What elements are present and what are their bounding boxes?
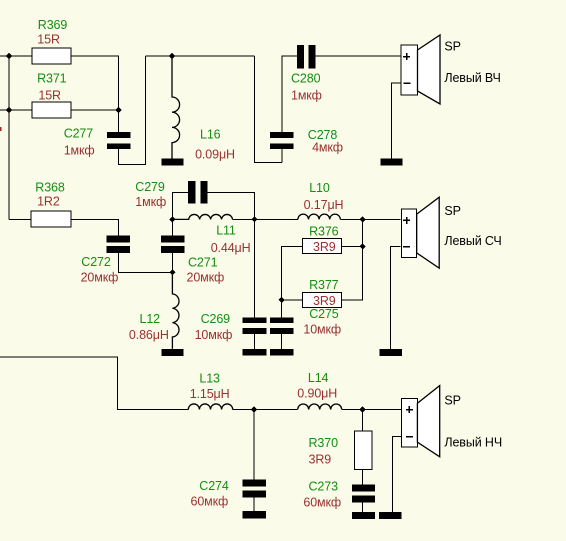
wire R369 right to corner down [71, 56, 119, 110]
wire C278 bottom stub [281, 149, 283, 162]
label C271 [187, 255, 225, 284]
ground speaker NCh [379, 512, 402, 519]
svg-text:3R9: 3R9 [313, 294, 336, 308]
svg-text:60мкф: 60мкф [191, 494, 229, 508]
wire input second y=110 [0, 109, 32, 111]
svg-text:L10: L10 [309, 181, 330, 195]
capacitor C278 [270, 132, 294, 149]
svg-text:C274: C274 [199, 479, 229, 493]
capacitor C272 [106, 235, 130, 253]
ground C269 [243, 349, 267, 356]
svg-text:0.09μH: 0.09μH [195, 147, 235, 161]
ground L12 [162, 349, 184, 356]
wire C278 top to C280 left [282, 56, 297, 132]
svg-text:R368: R368 [35, 181, 65, 195]
wire R368 right to C272 top [71, 219, 119, 235]
label R371 [37, 71, 67, 102]
svg-text:1R2: 1R2 [37, 194, 60, 208]
svg-text:3R9: 3R9 [313, 240, 336, 254]
resistor R371 [32, 102, 71, 118]
label R370 [309, 436, 339, 467]
svg-text:Левый ВЧ: Левый ВЧ [444, 71, 500, 85]
svg-text:3R9: 3R9 [309, 453, 332, 467]
speaker SP Levyi VCh [401, 35, 440, 104]
wire C277 bottom loop up [119, 56, 146, 164]
resistor R370 [354, 431, 372, 470]
svg-text:SP: SP [444, 394, 460, 408]
svg-text:R376: R376 [309, 224, 339, 238]
svg-text:C269: C269 [201, 312, 231, 326]
svg-text:0.44μH: 0.44μH [211, 241, 251, 255]
label C273 [303, 480, 341, 510]
ground C274 [243, 511, 266, 519]
svg-text:R371: R371 [37, 71, 67, 85]
label C280 [291, 72, 322, 103]
ground C273 [352, 512, 375, 519]
resistor R369 [32, 48, 71, 64]
resistor R376 [302, 239, 341, 254]
wire C279 right [208, 192, 255, 219]
svg-text:C275: C275 [309, 307, 339, 321]
wire input top y=56 [0, 55, 32, 57]
label R376 [309, 224, 339, 254]
svg-text:15R: 15R [38, 89, 61, 103]
wire speaker NCh minus to ground [393, 437, 402, 512]
label C278 [308, 128, 343, 155]
svg-text:C272: C272 [81, 255, 111, 269]
inductor L14 [298, 404, 342, 410]
svg-text:R369: R369 [38, 18, 68, 32]
label L11 [211, 223, 251, 255]
svg-text:C271: C271 [188, 255, 218, 269]
wire right column R376 R377 [341, 219, 362, 300]
svg-text:SP: SP [444, 40, 460, 54]
wire left bus vertical x=9 [8, 56, 10, 219]
capacitor C269 [243, 317, 267, 334]
label L10 [304, 181, 344, 212]
label C269 [195, 312, 233, 342]
label speaker SCh [444, 204, 501, 248]
label R368 [35, 181, 65, 209]
wire to R368 left [9, 218, 31, 220]
svg-text:L11: L11 [216, 223, 236, 237]
wire C279 left [172, 192, 188, 219]
svg-text:60мкф: 60мкф [303, 496, 341, 510]
svg-text:20мкф: 20мкф [81, 270, 119, 284]
label C279 [135, 180, 166, 209]
resistor R377 [302, 292, 341, 307]
svg-text:4мкф: 4мкф [312, 141, 343, 155]
capacitor C275 [270, 317, 294, 334]
wire C269 bottom stub [254, 334, 256, 349]
svg-text:C277: C277 [64, 127, 94, 141]
label L16 [195, 127, 235, 161]
svg-text:1.15μH: 1.15μH [190, 387, 230, 401]
resistor R368 [31, 211, 71, 227]
label R369 [37, 18, 67, 47]
wire R377 left [282, 299, 303, 301]
wire speaker SCh minus to ground [391, 247, 401, 349]
svg-text:L14: L14 [308, 371, 329, 385]
wire input bottom long [0, 357, 188, 410]
capacitor C271 [161, 235, 185, 253]
speaker SP Levyi NCh [402, 386, 440, 457]
wire C271 bottom [171, 253, 173, 272]
svg-text:0.90μH: 0.90μH [297, 387, 337, 401]
svg-text:L13: L13 [199, 371, 220, 385]
clipped label fragment left edge [0, 127, 2, 131]
wire top bus to L16 and right [145, 55, 254, 57]
label speaker NCh [444, 394, 502, 450]
svg-text:1мкф: 1мкф [291, 89, 322, 103]
label speaker VCh [444, 40, 500, 85]
svg-text:R370: R370 [309, 436, 339, 450]
wire R376 right [341, 245, 362, 247]
wire C273 bottom stub [362, 503, 364, 512]
wire C272 bottom to node [119, 253, 173, 272]
wire node to R370 top [362, 410, 364, 432]
label R377 [309, 278, 339, 308]
inductor L13 [188, 404, 232, 410]
label L13 [190, 371, 230, 401]
svg-text:Левый СЧ: Левый СЧ [444, 234, 501, 248]
capacitor C273 [352, 485, 375, 503]
svg-text:15R: 15R [37, 33, 60, 47]
svg-text:1мкф: 1мкф [135, 195, 166, 209]
inductor L12 [172, 272, 179, 349]
label L12 [129, 312, 169, 342]
wire node to L10 [255, 218, 298, 220]
wire node to C274 top [253, 410, 255, 480]
wire L14 right to speaker [342, 409, 402, 411]
inductor L11 [172, 214, 232, 219]
svg-text:1мкф: 1мкф [64, 143, 95, 157]
capacitor C280 [297, 45, 316, 68]
svg-text:C273: C273 [309, 480, 339, 494]
svg-text:20мкф: 20мкф [187, 271, 225, 285]
wire C274 bottom stub [253, 498, 255, 511]
label L14 [297, 371, 337, 401]
speaker SP Levyi SCh [402, 197, 440, 268]
inductor L10 [298, 214, 340, 219]
svg-text:SP: SP [444, 204, 460, 218]
wire speaker VCh minus to ground [392, 83, 402, 159]
wire L11 right to node [233, 218, 255, 220]
node junction dots [6, 53, 366, 413]
label C277 [64, 127, 95, 158]
svg-text:C279: C279 [135, 180, 165, 194]
wire L10 right to speaker [340, 218, 400, 220]
label C274 [191, 479, 229, 508]
svg-text:0.86μH: 0.86μH [129, 328, 169, 342]
svg-text:R377: R377 [309, 278, 339, 292]
ground C275 [270, 349, 294, 356]
ground L16 [162, 159, 184, 166]
wire junction to C277 top [118, 110, 120, 132]
wire R371 right [71, 109, 119, 111]
capacitor C279 [188, 181, 208, 203]
svg-text:C280: C280 [291, 72, 321, 86]
label C272 [81, 255, 119, 284]
svg-text:10мкф: 10мкф [303, 323, 341, 337]
wire L13 right to L14 [233, 409, 298, 411]
wire right column down to C278 bottom [255, 56, 282, 162]
wire R376 left down [282, 246, 303, 300]
capacitor C277 [107, 132, 131, 149]
label C275 [303, 307, 341, 337]
wire node to C271 top [171, 219, 173, 235]
svg-text:L12: L12 [140, 312, 161, 326]
wire C275 top stub [281, 300, 283, 317]
capacitor C274 [243, 480, 266, 498]
svg-text:0.17μH: 0.17μH [304, 198, 344, 212]
wire C280 right to speaker [316, 55, 402, 57]
svg-text:Левый НЧ: Левый НЧ [444, 436, 502, 450]
wire C275 bottom stub [281, 334, 283, 349]
wire R370 bottom to C273 [362, 470, 364, 485]
ground speaker VCh [381, 159, 403, 166]
wire node to C269 [254, 219, 256, 317]
inductor L16 [172, 56, 180, 159]
ground speaker SCh [380, 349, 402, 356]
svg-text:L16: L16 [200, 127, 221, 141]
svg-text:10мкф: 10мкф [195, 328, 233, 342]
